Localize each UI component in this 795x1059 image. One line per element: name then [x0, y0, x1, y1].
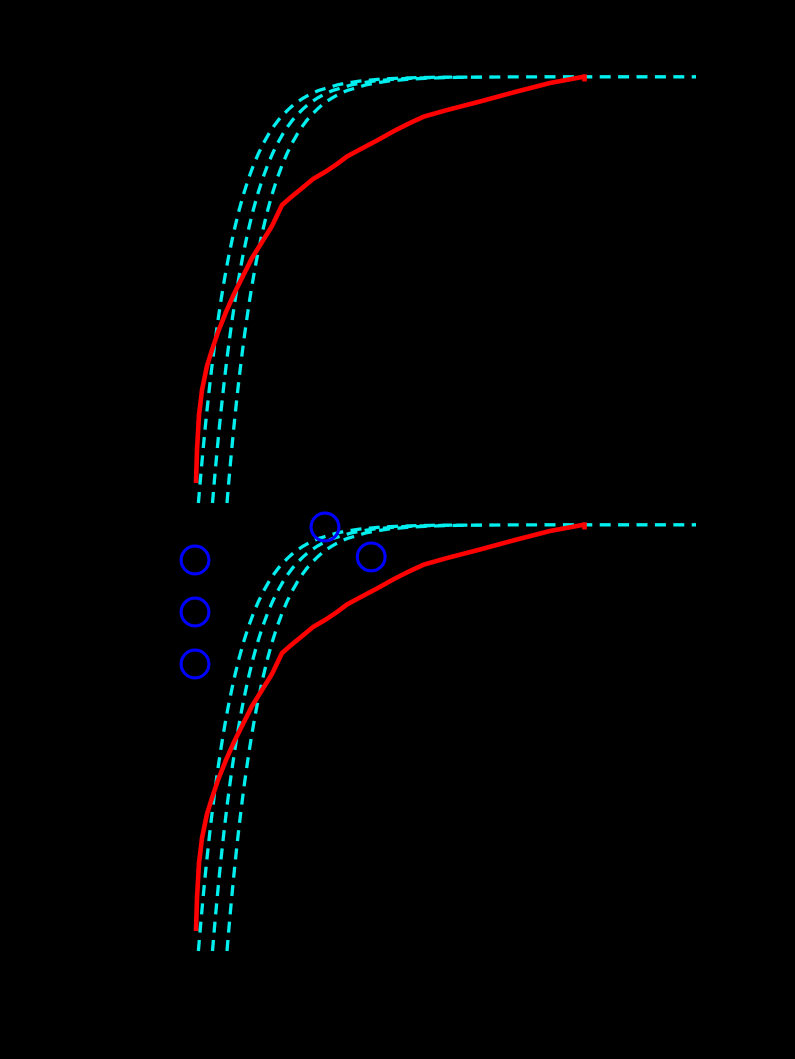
cyan dashed model curve (middle) top panel — [213, 77, 483, 503]
blue circle data point 2 bottom panel — [181, 598, 209, 626]
cyan dashed model curve (inner) bottom panel — [198, 525, 452, 951]
cyan dashed model curve (outer) bottom panel — [227, 525, 696, 951]
red curve end-point tick top panel — [582, 74, 587, 81]
cyan dashed model curve (outer) top panel — [227, 77, 696, 503]
cyan dashed model curve (inner) top panel — [198, 77, 452, 503]
red curve end-point tick bottom panel — [582, 522, 587, 529]
red solid curve top panel — [196, 77, 585, 484]
blue circle data point 4 bottom panel — [311, 513, 339, 541]
blue circle data point 5 bottom panel — [357, 543, 385, 571]
blue circle data point 1 bottom panel — [181, 546, 209, 574]
cyan dashed model curve (middle) bottom panel — [213, 525, 483, 951]
blue circle data point 3 bottom panel — [181, 650, 209, 678]
red solid curve bottom panel — [196, 525, 585, 932]
